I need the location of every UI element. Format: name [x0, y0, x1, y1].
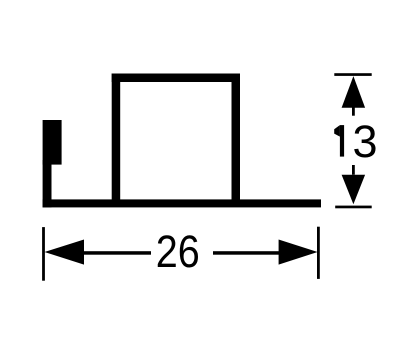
dimension 13: top tick: [334, 73, 371, 76]
dimension 13: upper stem: [352, 107, 355, 116]
dimension 13: bottom tick: [335, 206, 372, 209]
dimension 26: right arrowhead: [279, 240, 318, 265]
dimension 26: left arrowhead: [45, 240, 85, 265]
profile: left vertical bar: [43, 160, 52, 207]
dimension 13: lower stem: [352, 165, 355, 175]
dimension 13: down arrowhead: [342, 175, 366, 205]
profile: left flag (thick lip): [43, 120, 62, 165]
svg-text:26: 26: [156, 226, 200, 277]
profile: square top edge: [112, 74, 240, 83]
dimension 26: left tick: [42, 227, 45, 281]
profile: square right leg: [232, 74, 241, 200]
dimension 26: right tick: [317, 227, 320, 279]
profile: square left leg: [112, 74, 121, 200]
dimension 13: up arrowhead: [342, 76, 366, 108]
dimension 13: value label digit 1 (stem): [340, 125, 344, 157]
svg-text:3: 3: [352, 116, 377, 167]
dimension 26: right stem: [213, 251, 280, 255]
profile: baseline: [43, 199, 321, 207]
dimension 26: left stem: [83, 251, 151, 255]
dimension 13: value label digit 1 (flag): [334, 125, 340, 137]
